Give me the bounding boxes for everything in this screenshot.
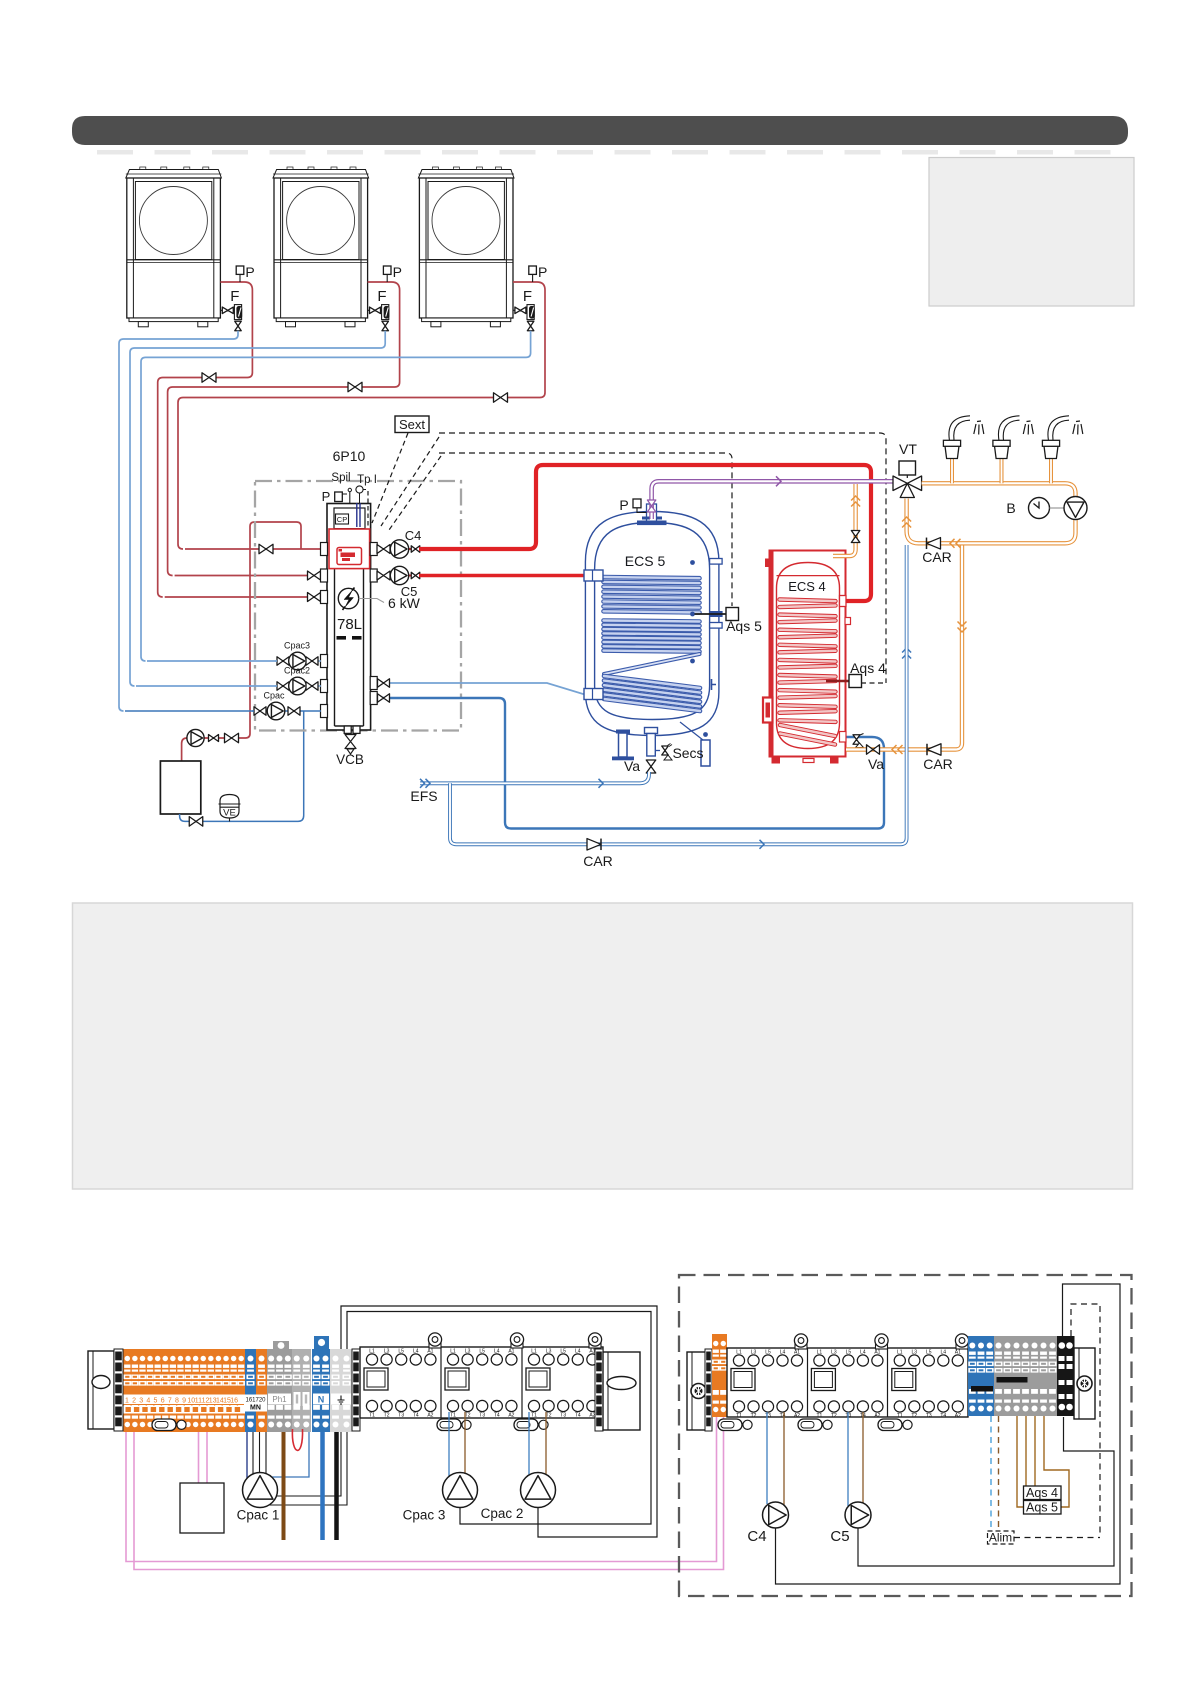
svg-text:T2: T2 (751, 1413, 757, 1419)
pipe: heat pump cold return (blue) (130, 331, 385, 686)
svg-text:1: 1 (125, 1397, 129, 1404)
svg-text:ECS 5: ECS 5 (625, 553, 666, 569)
svg-text:C4: C4 (747, 1528, 766, 1545)
svg-text:CP: CP (337, 515, 347, 524)
svg-text:P: P (245, 264, 254, 280)
svg-text:L1: L1 (369, 1349, 375, 1355)
immersion sensor well (356, 503, 358, 527)
svg-text:T2: T2 (384, 1413, 390, 1419)
left DIN rail bracket (88, 1351, 114, 1429)
blue feeds to Cpac rows (125, 710, 254, 712)
svg-text:T4: T4 (780, 1413, 786, 1419)
svg-text:Cpac2: Cpac2 (284, 666, 310, 676)
orange aux columns (256, 1349, 267, 1432)
svg-text:CAR: CAR (923, 756, 953, 772)
svg-text:C5: C5 (401, 584, 418, 599)
ECS5 drain tube (645, 728, 658, 734)
heat exchanger unit (red box) (329, 529, 370, 569)
module ports left (321, 543, 328, 556)
pipe: heat pump cold return (blue) (141, 331, 531, 661)
svg-text:T1: T1 (816, 1413, 822, 1419)
svg-text:T4: T4 (575, 1413, 581, 1419)
pump Cpac3 (275, 660, 321, 662)
svg-text:VCB: VCB (336, 752, 364, 767)
module bottom stubs and VCB drain (344, 726, 351, 733)
pump C4 (377, 548, 437, 550)
contactor module 2 (445, 1368, 469, 1390)
svg-text:L1: L1 (817, 1350, 823, 1356)
pipe: ECS5 hot out (purple) to VT (652, 481, 893, 519)
svg-text:ECS 4: ECS 4 (788, 579, 826, 594)
ECS5 coil lower port (584, 689, 603, 700)
svg-text:C5: C5 (830, 1528, 849, 1545)
black end terminals (1057, 1336, 1075, 1416)
brown sensor wires (1017, 1416, 1023, 1507)
svg-text:F: F (377, 288, 386, 305)
blue N terminal (312, 1349, 330, 1432)
wire: control rectangle inner (347, 1312, 651, 1525)
orange terminal strip (124, 1349, 246, 1432)
small orange terminal (712, 1334, 727, 1417)
wire: pink bus to right panel (126, 1417, 717, 1562)
svg-text:A1: A1 (874, 1350, 880, 1356)
Aqs 4 sensor (826, 680, 849, 682)
contactor module 4 (731, 1369, 755, 1391)
end comb (114, 1349, 123, 1431)
svg-text:T4: T4 (494, 1413, 500, 1419)
gray placeholder box top right (929, 158, 1134, 307)
Va valve at ECS4 bottom (867, 745, 880, 755)
mounting ear (795, 1342, 807, 1349)
ECS4 bottom safety group (840, 732, 847, 743)
svg-text:VE: VE (223, 808, 236, 819)
svg-text:L1: L1 (450, 1349, 456, 1355)
hydraulic module boundary (dash-dot) (255, 481, 461, 731)
blue terminal block (968, 1336, 994, 1416)
svg-text:Cpac3: Cpac3 (284, 641, 310, 651)
buffer module 6P10 outer casing (327, 504, 371, 731)
Sext label (395, 416, 429, 433)
gray terminal block (994, 1336, 1057, 1416)
pipe: mixed water manifold with shower loop (919, 483, 1076, 543)
level marks (337, 636, 347, 640)
svg-text:L4: L4 (860, 1350, 866, 1356)
contactor block right (727, 1348, 968, 1417)
svg-text:Aqs 4: Aqs 4 (850, 660, 886, 676)
wire: red feed rows into buffer module (165, 596, 318, 598)
ECS5 coils (604, 577, 701, 711)
tank ECS 4 shell (770, 551, 846, 757)
svg-text:P: P (538, 264, 547, 280)
6 kW electric heater (338, 588, 358, 608)
svg-text:Ph1: Ph1 (272, 1395, 287, 1404)
glycol make-up tank (160, 761, 200, 814)
right DIN bracket left (687, 1352, 710, 1430)
shower outlet at x=1051 (1049, 459, 1053, 483)
Tp I thermometer (356, 486, 363, 493)
pump Cpac (252, 710, 321, 712)
label Alim (988, 1531, 1015, 1544)
svg-text:L3: L3 (546, 1349, 552, 1355)
svg-text:L3: L3 (384, 1349, 390, 1355)
svg-text:F: F (523, 288, 532, 305)
svg-text:Va: Va (868, 756, 884, 772)
svg-text:T3: T3 (479, 1413, 485, 1419)
earth terminal (330, 1349, 352, 1432)
pump C5 (377, 575, 437, 577)
pipe: heat pump cold return (blue) (119, 331, 238, 711)
shower outlet at x=1001.5 (1000, 459, 1004, 483)
P gauge on module (335, 492, 343, 502)
faded heading dashes (97, 150, 133, 155)
CAR on bottom line (587, 839, 601, 850)
svg-text:A2: A2 (508, 1413, 514, 1419)
svg-text:L4: L4 (575, 1349, 581, 1355)
slot pairs right (718, 1419, 742, 1431)
svg-text:L4: L4 (780, 1350, 786, 1356)
pipe: ECS4 top to mixing valve (orange) (833, 484, 856, 556)
ECS5 legs (619, 733, 628, 757)
contactor module 6 (892, 1369, 916, 1391)
ECS4 top inlet port (840, 596, 847, 607)
svg-text:Tp I: Tp I (357, 474, 377, 486)
svg-text:A1: A1 (794, 1350, 800, 1356)
pipe: heat pump hot supply (red) (362, 282, 400, 387)
svg-text:7: 7 (168, 1397, 172, 1404)
wire: C5 return loop (858, 1417, 1114, 1566)
dashed sensor pocket (367, 491, 369, 528)
Aqs 5 sensor (710, 611, 723, 617)
wires: pump C5 (847, 1412, 849, 1506)
pipe: heat pump hot supply (red) (216, 282, 253, 378)
mounting ear (589, 1341, 601, 1348)
title bar (72, 116, 1128, 145)
svg-text:C4: C4 (405, 528, 422, 543)
svg-text:T3: T3 (765, 1413, 771, 1419)
glycol circulation pump (187, 729, 204, 746)
svg-text:T4: T4 (940, 1413, 946, 1419)
mounting ear (429, 1341, 441, 1348)
shut-off valve on hot line (348, 382, 362, 392)
pipe: cold feed (blue) up to junction (902, 648, 911, 653)
svg-text:T2: T2 (911, 1413, 917, 1419)
CP controller (336, 514, 349, 524)
svg-text:VT: VT (899, 441, 917, 457)
wire: pink to room stat (198, 1432, 200, 1483)
shut-off valve on hot line (202, 373, 216, 383)
pressure sensor P (236, 266, 244, 274)
svg-text:6: 6 (161, 1397, 165, 1404)
svg-text:Aqs 5: Aqs 5 (1026, 1501, 1058, 1515)
svg-text:A2: A2 (427, 1413, 433, 1419)
svg-text:L1: L1 (897, 1350, 903, 1356)
Va valve under ECS5 (646, 760, 656, 773)
wire: earth to Cpac1 (276, 1432, 341, 1496)
svg-text:L3: L3 (912, 1350, 918, 1356)
svg-text:T4: T4 (413, 1413, 419, 1419)
mounting ear (956, 1342, 968, 1349)
svg-text:T1: T1 (369, 1413, 375, 1419)
svg-text:16: 16 (230, 1397, 238, 1404)
CAR check valve on return (927, 538, 941, 549)
svg-text:Secs: Secs (672, 745, 703, 761)
right wall stubs (710, 559, 723, 565)
svg-text:L5: L5 (479, 1349, 485, 1355)
wires into pump Cpac1 (246, 1432, 248, 1479)
pump Cpac3 (443, 1473, 478, 1508)
dashed link Alim to box (1014, 1537, 1100, 1539)
drain valve (189, 817, 203, 827)
svg-text:T1: T1 (450, 1413, 456, 1419)
pressure sensor P (529, 266, 537, 274)
svg-text:Aqs 4: Aqs 4 (1026, 1486, 1058, 1500)
blue aux column (245, 1349, 256, 1432)
svg-text:T1: T1 (897, 1413, 903, 1419)
svg-text:T3: T3 (398, 1413, 404, 1419)
white label band with numbers (124, 1395, 246, 1405)
svg-text:L1: L1 (531, 1349, 537, 1355)
svg-text:L3: L3 (751, 1350, 757, 1356)
svg-text:L4: L4 (941, 1350, 947, 1356)
valve + pale blue to ECS5 lower coil (377, 683, 588, 694)
pressure sensor P (383, 266, 391, 274)
ECS4 left wall stub (765, 559, 772, 568)
svg-text:8: 8 (175, 1397, 179, 1404)
drain valve under filter (235, 321, 242, 331)
contactor module 3 (526, 1368, 550, 1390)
svg-text:A2: A2 (874, 1413, 880, 1419)
pipe: C4 hot water to ECS4 (thick red) (419, 465, 871, 601)
svg-text:MN: MN (250, 1405, 261, 1412)
svg-text:A2: A2 (794, 1413, 800, 1419)
valves on glycol branch (209, 735, 219, 742)
safety valve on ECS5 top (647, 500, 656, 512)
svg-text:3: 3 (139, 1397, 143, 1404)
svg-text:P: P (322, 489, 331, 504)
drain valve under filter (527, 321, 534, 331)
svg-text:Spil: Spil (331, 472, 350, 484)
recirc branch drop (958, 628, 967, 633)
svg-text:B: B (1006, 500, 1015, 516)
bypass loop above C4 feed (250, 522, 301, 549)
svg-text:Alim: Alim (989, 1531, 1012, 1545)
ECS4 feet (772, 757, 781, 764)
heavy wires: brown / blue / black (282, 1432, 286, 1540)
svg-text:P: P (393, 264, 402, 280)
svg-text:Cpac 1: Cpac 1 (237, 1508, 280, 1523)
Spil vent (349, 492, 351, 504)
svg-text:T2: T2 (831, 1413, 837, 1419)
svg-text:T1: T1 (531, 1413, 537, 1419)
svg-text:A1: A1 (427, 1349, 433, 1355)
gray Ph1 terminals (267, 1349, 292, 1432)
wire: control rectangle outer (341, 1306, 657, 1537)
shut-off valve on hot line (494, 393, 508, 403)
dashed sensor box (1071, 1304, 1100, 1535)
expansion vessel VE (220, 795, 239, 819)
svg-text:161720: 161720 (245, 1398, 266, 1404)
contactor module 5 (811, 1369, 835, 1391)
svg-text:2: 2 (132, 1397, 136, 1404)
mounting ear (511, 1341, 523, 1348)
svg-text:T3: T3 (926, 1413, 932, 1419)
svg-text:L1: L1 (736, 1350, 742, 1356)
svg-text:L5: L5 (846, 1350, 852, 1356)
dashed reference lines (372, 433, 408, 523)
svg-text:A1: A1 (508, 1349, 514, 1355)
svg-text:EFS: EFS (410, 788, 437, 804)
svg-text:T3: T3 (560, 1413, 566, 1419)
label Aqs 4 (1024, 1486, 1062, 1500)
gray placeholder panel middle (73, 903, 1133, 1189)
svg-text:Aqs 5: Aqs 5 (726, 618, 762, 634)
svg-text:L5: L5 (765, 1350, 771, 1356)
P sensor ECS5 (633, 499, 641, 508)
heat pump unit 1 (126, 167, 222, 327)
svg-text:L3: L3 (831, 1350, 837, 1356)
svg-text:L3: L3 (465, 1349, 471, 1355)
svg-text:T1: T1 (736, 1413, 742, 1419)
svg-text:Va: Va (624, 758, 640, 774)
svg-text:F: F (230, 288, 239, 305)
module top compartment (334, 508, 365, 529)
svg-text:L5: L5 (398, 1349, 404, 1355)
red jumper (292, 1429, 302, 1450)
svg-text:Cpac 3: Cpac 3 (403, 1508, 446, 1523)
branch to bottom recirc line (450, 545, 907, 844)
pipe: cold + return rise to VT (907, 499, 919, 544)
svg-text:4: 4 (146, 1397, 150, 1404)
pump Cpac2 (521, 1473, 556, 1508)
wire: C4 return loop (776, 1284, 1121, 1584)
ECS5 top port and flange (647, 504, 657, 522)
label Aqs 5 (1024, 1501, 1062, 1515)
bottom slot pairs (152, 1419, 176, 1431)
room thermostat box (180, 1483, 224, 1533)
pump Cpac2 (275, 685, 321, 687)
outer dashed enclosure (679, 1275, 1132, 1596)
Secs valve (655, 750, 660, 752)
dashed supply wires to Alim (990, 1416, 992, 1531)
svg-text:Cpac 2: Cpac 2 (481, 1506, 524, 1521)
pump Cpac1 (243, 1473, 278, 1508)
svg-text:L4: L4 (413, 1349, 419, 1355)
svg-text:N: N (318, 1395, 325, 1405)
valve + return from ECS4 bottom (377, 698, 884, 829)
wire: tank drain to expansion vessel (180, 711, 304, 821)
heat pump unit 3 (418, 167, 514, 327)
svg-text:L5: L5 (926, 1350, 932, 1356)
svg-text:A2: A2 (955, 1413, 961, 1419)
svg-text:A1: A1 (955, 1350, 961, 1356)
tank ECS 5 shell (585, 512, 719, 736)
shower outlet at x=952 (950, 459, 954, 483)
ECS5 coil inlet port (C5) (584, 570, 603, 581)
svg-text:CAR: CAR (922, 549, 952, 565)
svg-text:5: 5 (154, 1397, 158, 1404)
ECS4 coil (780, 600, 836, 745)
svg-text:L5: L5 (560, 1349, 566, 1355)
svg-text:Cpac: Cpac (263, 691, 285, 701)
wires: pump C4 (766, 1412, 768, 1504)
valves on module left feeds (308, 593, 321, 602)
svg-text:9: 9 (182, 1397, 186, 1404)
CAR check valve on recirc drop (927, 744, 941, 755)
svg-text:78L: 78L (337, 616, 362, 633)
svg-text:6P10: 6P10 (333, 448, 366, 464)
svg-text:CAR: CAR (583, 853, 613, 869)
mounting ear (876, 1342, 888, 1349)
wire: glycol pump branch (204, 549, 251, 738)
svg-text:Sext: Sext (399, 417, 425, 432)
blue neutral loop (272, 1432, 310, 1477)
contactor module 1 (364, 1368, 388, 1390)
contactor to pump wires (448, 1412, 450, 1477)
pipe: recirc return into ECS4 bottom (orange) (846, 543, 962, 749)
svg-text:L4: L4 (494, 1349, 500, 1355)
heat pump unit 2 (273, 167, 369, 327)
module ports right (370, 543, 377, 556)
sensor dots (690, 560, 695, 565)
pipe: C5 to ECS5 coil (thick red) (419, 574, 588, 577)
svg-text:P: P (619, 497, 628, 513)
contactor block (3 modules) (360, 1347, 603, 1418)
drain valve under filter (382, 321, 389, 331)
pipe: heat pump hot supply (red) (507, 282, 545, 398)
